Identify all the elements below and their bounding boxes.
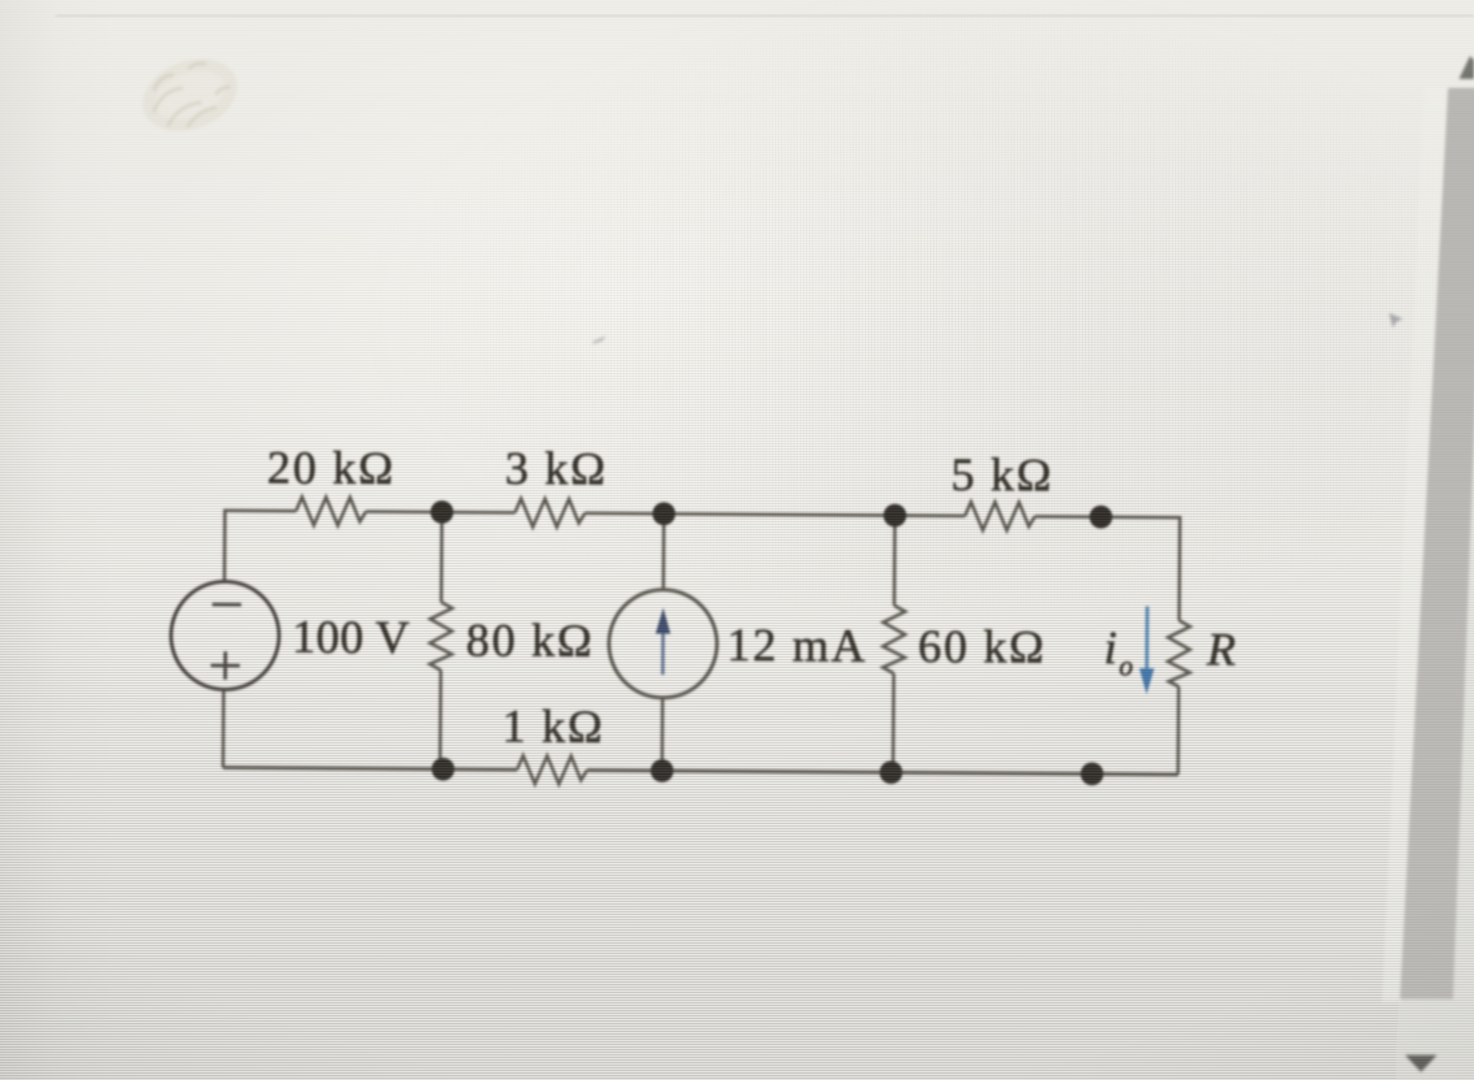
wire top-right segment (1034, 516, 1180, 620)
scrollbar thumb (1400, 88, 1474, 999)
tiny speck mark (592, 336, 606, 344)
wire top between 20k and 3k (366, 512, 515, 513)
resistor 60 kΩ zigzag (883, 605, 905, 673)
wire branch 80k top (440, 512, 444, 602)
top hairline (56, 15, 1474, 17)
wire branch current-source top (662, 514, 666, 590)
io current arrow (1139, 606, 1155, 694)
node F top (1089, 505, 1112, 528)
resistor 80 kΩ zigzag (430, 602, 452, 670)
wire left vertical below source (221, 690, 225, 768)
node B bottom (431, 758, 454, 781)
resistor 3 kΩ zigzag (515, 499, 585, 528)
small cursor mark (1389, 313, 1403, 328)
voltage source plus sign (211, 651, 240, 679)
node G bottom (879, 761, 902, 784)
scrollbar down-arrow (1405, 1055, 1437, 1072)
wire bottom-left to 1k (223, 768, 517, 770)
current source arrow (655, 608, 670, 675)
node D bottom (650, 759, 673, 782)
scrollbar track (1396, 88, 1474, 1080)
voltage source V1 circle (171, 581, 280, 690)
scrollbar up-arrow fragment (1459, 56, 1474, 79)
current source I1 circle (609, 589, 718, 698)
node H bottom (1080, 762, 1103, 785)
smudge mark top-left (132, 46, 248, 145)
wire branch 60k bottom (891, 673, 895, 772)
resistor 1 kΩ zigzag (517, 756, 587, 785)
resistor 20 kΩ zigzag (296, 497, 366, 526)
wire top-left segment (224, 511, 296, 584)
wire branch 60k top (893, 515, 897, 605)
wire right-bottom segment (1176, 687, 1180, 775)
wire top between 3k and 5k (585, 513, 965, 516)
voltage source minus sign (212, 603, 241, 607)
wire bottom right long (587, 770, 1178, 774)
circuit (170, 440, 1239, 789)
wire branch current-source bottom (660, 698, 664, 771)
scrollbar track highlight (1382, 88, 1452, 1002)
node C top (652, 502, 675, 525)
resistor R zigzag (1168, 620, 1190, 686)
resistor 5 kΩ zigzag (965, 502, 1035, 531)
node E top (883, 504, 906, 527)
wire branch 80k bottom (438, 670, 442, 769)
node A top (430, 501, 453, 524)
